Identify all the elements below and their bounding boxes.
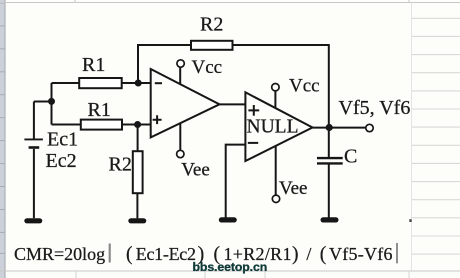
svg-text:Vf5, Vf6: Vf5, Vf6 (339, 97, 411, 119)
svg-text:Vcc: Vcc (289, 76, 320, 97)
svg-text:Vcc: Vcc (192, 57, 223, 78)
svg-text:R1: R1 (82, 54, 105, 76)
svg-text:C: C (344, 146, 357, 168)
svg-text:Vee: Vee (279, 178, 307, 199)
svg-text:R2: R2 (109, 154, 132, 176)
svg-text:R2: R2 (200, 14, 223, 36)
svg-text:R1: R1 (88, 99, 111, 121)
svg-text:Vee: Vee (181, 160, 209, 181)
svg-text:bbs.eetop.cn: bbs.eetop.cn (193, 260, 268, 274)
svg-text:Ec1: Ec1 (47, 129, 78, 151)
svg-text:NULL: NULL (247, 117, 299, 138)
svg-text:Ec2: Ec2 (46, 150, 77, 172)
